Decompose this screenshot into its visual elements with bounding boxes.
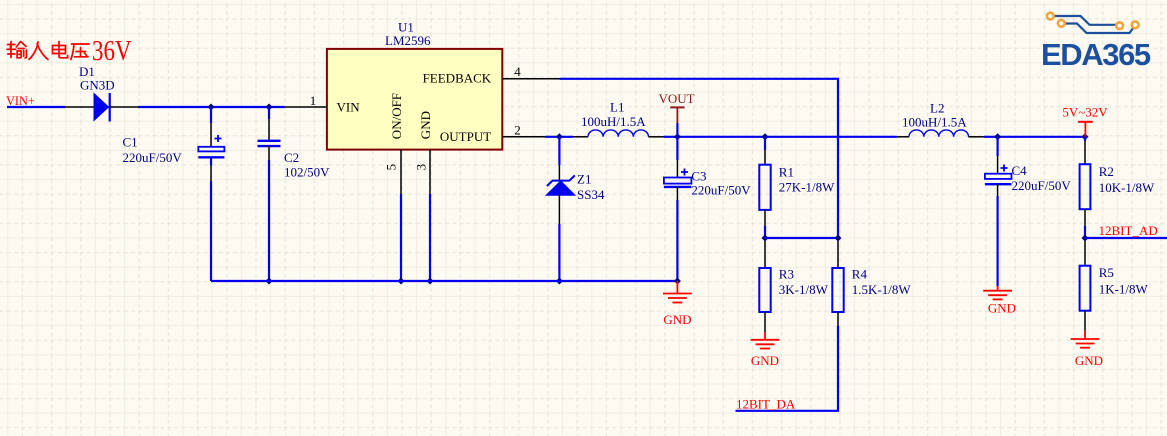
svg-text:220uF/50V: 220uF/50V <box>123 150 183 165</box>
svg-text:2: 2 <box>514 122 521 137</box>
svg-text:L1: L1 <box>610 100 624 115</box>
svg-text:220uF/50V: 220uF/50V <box>691 183 751 198</box>
svg-text:C4: C4 <box>1012 163 1028 178</box>
junction C3/GND on rail <box>674 278 681 285</box>
wire pin5 to ground rail <box>400 194 402 281</box>
junction R1/R3 node <box>762 235 769 242</box>
zener diode Z1 SS34 <box>546 137 605 224</box>
wire C1 bottom to ground rail <box>210 181 212 281</box>
wire D1 cathode to U1 pin1 <box>138 106 285 108</box>
junction Z1 tap <box>556 133 563 140</box>
junction VOUT node <box>674 133 681 140</box>
svg-text:3: 3 <box>414 164 429 171</box>
svg-text:220uF/50V: 220uF/50V <box>1012 178 1072 193</box>
pin 4 of U1 <box>502 78 559 80</box>
wire Z1 to ground rail <box>558 224 560 281</box>
svg-text:R2: R2 <box>1099 164 1114 179</box>
svg-text:L2: L2 <box>930 100 944 115</box>
resistor R3 3K-1/8W <box>759 241 828 332</box>
resistor R2 10K-1/8W <box>1080 137 1155 226</box>
svg-text:GN3D: GN3D <box>80 78 115 93</box>
wire C2 bottom to ground rail <box>268 160 270 281</box>
svg-text:SS34: SS34 <box>577 187 605 202</box>
svg-text:FEEDBACK: FEEDBACK <box>423 70 492 85</box>
junction pin5 on rail <box>398 278 405 285</box>
wire pin2 to L1 <box>545 136 573 138</box>
svg-text:C1: C1 <box>123 134 138 149</box>
junction at C2 top <box>266 104 273 111</box>
wire C3 to ground rail <box>676 200 678 281</box>
wire L1 to output rail <box>664 136 898 138</box>
svg-text:100uH/1.5A: 100uH/1.5A <box>902 114 967 129</box>
svg-text:EDA365: EDA365 <box>1041 37 1151 72</box>
junction at C1 top <box>208 104 215 111</box>
svg-text:OUTPUT: OUTPUT <box>440 129 491 144</box>
svg-text:GND: GND <box>1075 353 1103 368</box>
svg-text:4: 4 <box>514 64 521 79</box>
svg-text:ON/OFF: ON/OFF <box>389 93 404 139</box>
svg-text:R3: R3 <box>779 267 794 282</box>
pin 2 of U1 <box>502 136 545 138</box>
svg-text:102/50V: 102/50V <box>284 164 330 179</box>
svg-text:VIN: VIN <box>337 99 361 114</box>
pin 3 of U1 <box>429 150 431 194</box>
junction C2 bottom on rail <box>266 278 273 285</box>
svg-text:12BIT_AD: 12BIT_AD <box>1099 223 1158 238</box>
svg-text:1.5K-1/8W: 1.5K-1/8W <box>852 282 912 297</box>
op-amp U1 LM2596 body <box>327 19 502 149</box>
wire R2 to 12BIT_AD node <box>1084 226 1086 238</box>
inductor L2 100uH/1.5A <box>897 100 984 137</box>
capacitor C3 220uF/50V <box>664 137 751 200</box>
wire node R1R3 to node R4 <box>765 237 838 239</box>
diode D1 GN3D <box>65 64 138 122</box>
svg-text:12BIT_DA: 12BIT_DA <box>736 397 796 412</box>
svg-text:LM2596: LM2596 <box>385 33 431 48</box>
wire ground rail (bottom) <box>211 280 677 282</box>
ground symbol under R5 <box>1071 331 1100 348</box>
svg-text:GND: GND <box>988 301 1016 316</box>
ground symbol under R3 <box>751 332 780 348</box>
pin 1 of U1 <box>285 106 327 108</box>
wire R4 bottom to 12BIT_DA <box>736 326 839 411</box>
svg-text:R1: R1 <box>779 165 794 180</box>
junction pin3 on rail <box>427 278 434 285</box>
junction C4 top <box>994 133 1001 140</box>
junction 12BIT_AD node <box>1082 235 1089 242</box>
svg-text:1: 1 <box>310 93 317 108</box>
svg-text:VOUT: VOUT <box>658 91 694 106</box>
EDA365 logo pads <box>1047 13 1139 29</box>
capacitor C1 220uF/50V <box>123 107 225 181</box>
resistor R4 1.5K-1/8W <box>832 241 911 326</box>
svg-text:Z1: Z1 <box>577 172 591 187</box>
power port VOUT <box>658 91 694 123</box>
inductor L1 100uH/1.5A <box>573 100 664 137</box>
capacitor C2 102/50V <box>258 107 331 179</box>
pin 5 of U1 <box>400 150 402 194</box>
resistor R1 27K-1/8W <box>759 137 835 226</box>
svg-text:VIN+: VIN+ <box>6 94 35 108</box>
junction 5V node <box>1082 133 1089 140</box>
svg-text:C3: C3 <box>691 169 706 184</box>
svg-text:36V: 36V <box>92 36 132 67</box>
svg-text:1K-1/8W: 1K-1/8W <box>1099 281 1149 296</box>
junction R1 top <box>762 133 769 140</box>
wire VOUT port to rail <box>676 123 678 137</box>
power port 5V~32V <box>1062 105 1108 137</box>
svg-text:GND: GND <box>751 353 779 368</box>
svg-text:C2: C2 <box>284 150 299 165</box>
svg-text:100uH/1.5A: 100uH/1.5A <box>581 114 646 129</box>
svg-text:27K-1/8W: 27K-1/8W <box>779 180 835 195</box>
svg-text:5: 5 <box>384 164 399 171</box>
svg-text:5V~32V: 5V~32V <box>1062 105 1108 120</box>
svg-text:R5: R5 <box>1099 265 1114 280</box>
ground symbol under C4 <box>983 286 1012 299</box>
svg-text:R4: R4 <box>852 267 868 282</box>
wire pin3 to ground rail <box>429 194 431 281</box>
wire R1 bottom to node <box>764 226 766 238</box>
svg-text:10K-1/8W: 10K-1/8W <box>1099 180 1155 195</box>
svg-text:3K-1/8W: 3K-1/8W <box>779 282 829 297</box>
wire 12BIT_AD stub <box>1085 237 1167 239</box>
wire C4 to ground <box>996 196 998 286</box>
ground symbol at rail <box>663 281 692 303</box>
text note 输入电压36V <box>7 42 89 60</box>
junction feedback/R4 node <box>835 235 842 242</box>
svg-text:D1: D1 <box>79 64 95 79</box>
junction Z1 on rail <box>556 278 563 285</box>
capacitor C4 220uF/50V <box>985 137 1071 196</box>
wire L2 to 5V node <box>984 136 1085 138</box>
svg-text:GND: GND <box>663 312 691 327</box>
wire feedback net: pin4 right then down to R1/R4 node <box>560 79 839 238</box>
svg-text:GND: GND <box>418 111 433 139</box>
wire VIN+ input to D1 anode <box>7 106 65 108</box>
resistor R5 1K-1/8W <box>1080 241 1149 331</box>
EDA365 logo traces <box>1050 16 1135 33</box>
